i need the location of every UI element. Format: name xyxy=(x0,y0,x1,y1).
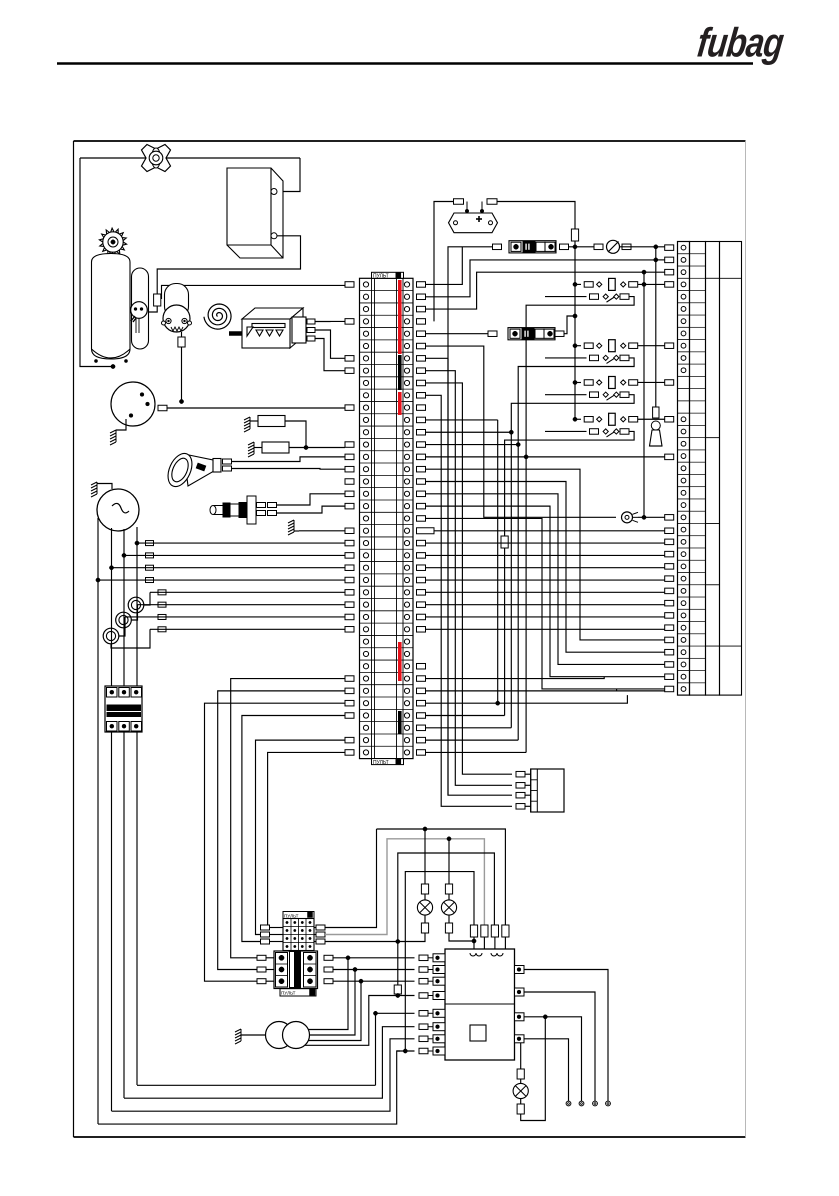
central strip left tabs xyxy=(345,282,354,755)
wire KM1 to AVR pin3 xyxy=(333,980,415,982)
fuse row tab1 xyxy=(493,244,502,250)
wire HL1 a xyxy=(424,894,426,900)
header rule xyxy=(57,62,753,65)
fuel tank xyxy=(92,254,131,360)
wire through row25 xyxy=(426,579,665,581)
wire relay K1 coil feed xyxy=(575,283,581,285)
contactor KM1 body xyxy=(274,951,318,989)
junction row3 bus644 xyxy=(642,270,646,274)
contactor tab left 981.2 xyxy=(257,979,266,984)
wire K5 right stub 927.5 xyxy=(314,927,316,929)
plug tab upper xyxy=(257,503,266,508)
wire L3 bottom xyxy=(112,1039,415,1111)
wire HL2 b xyxy=(448,915,450,923)
relay K4 left contact xyxy=(597,417,602,422)
wire X3 pin 3 xyxy=(525,794,531,796)
wire K5 left 941.5 xyxy=(270,941,284,943)
connector X3 tab 4 xyxy=(516,804,525,810)
wire starter to ignition xyxy=(181,347,183,400)
contactor tab right 957.8 xyxy=(324,955,333,960)
wire step row17 xyxy=(426,482,665,653)
wire X3 pin 1 xyxy=(525,773,531,775)
junction row2 xyxy=(654,258,658,262)
relay K4 tab right xyxy=(629,417,638,423)
inj pin3 xyxy=(307,336,315,341)
wire R1 right xyxy=(285,421,306,448)
ground R2 xyxy=(248,442,254,457)
switch K2 contact xyxy=(603,355,608,360)
wire ignition ground xyxy=(116,419,126,430)
wire lamp HL2 drop xyxy=(448,839,450,884)
wire fuse397 lower xyxy=(397,942,399,986)
wire bundle row34 xyxy=(218,691,345,970)
wire transformer tap4 xyxy=(305,996,393,1046)
wire through row28 xyxy=(426,616,665,618)
switch K1 stub xyxy=(545,296,587,298)
wire horn upper xyxy=(232,457,346,462)
fuse block FU2 xyxy=(508,328,555,340)
wire row13 join xyxy=(426,431,512,433)
relay K4 coil xyxy=(609,413,616,425)
wire inj pin2 to row7 xyxy=(315,330,345,358)
wire plug upper xyxy=(277,494,346,505)
wire bus655 down xyxy=(655,247,657,407)
rectifier tab right xyxy=(487,199,497,205)
switch K3 contact xyxy=(603,392,608,397)
tank terminal dots xyxy=(94,359,97,362)
svg-text:fubag: fubag xyxy=(695,19,787,65)
wire transformer tap1 xyxy=(308,958,348,1030)
relay K5 tab left 927.5 xyxy=(261,925,270,930)
junction R wires xyxy=(304,445,308,449)
junction tr1 xyxy=(346,956,350,960)
inj pin1 xyxy=(307,319,315,324)
wire CT1 to strip xyxy=(150,591,345,593)
relay K1 tab left xyxy=(584,282,593,288)
wire L4 bottom xyxy=(98,1051,400,1124)
terminal lug 3 xyxy=(593,1101,598,1106)
contactor tab left 957.8 xyxy=(257,955,266,960)
oil filter capsule xyxy=(132,268,149,349)
wire to sensor xyxy=(148,306,158,312)
wire fuse397 to row xyxy=(397,994,399,996)
wire key to strip xyxy=(638,516,665,518)
central strip right tabs xyxy=(417,282,426,755)
wire CT1 out xyxy=(144,592,150,605)
junction fuse2 bus xyxy=(573,314,577,318)
relay K5 tab left 934.5 xyxy=(261,932,270,937)
junction fuse row xyxy=(573,245,577,249)
wire transformer tap3 xyxy=(308,981,361,1040)
junction pin5 row xyxy=(373,1011,377,1015)
fuse2 tab right xyxy=(555,331,564,337)
contactor KM1 footer xyxy=(280,989,316,996)
fuse starter xyxy=(178,337,185,347)
lamp HL1 resistor bottom xyxy=(421,923,428,933)
wire gnd R2 xyxy=(254,447,262,449)
current transformer T2 xyxy=(116,612,132,628)
horn tab lower xyxy=(223,466,232,471)
wire rect fuse to bus xyxy=(574,241,576,247)
wire KM1 left 969.5 xyxy=(266,969,274,971)
svg-text:ПУЛЬТ: ПУЛЬТ xyxy=(281,991,296,996)
wire starter down xyxy=(181,332,183,337)
rectifier terminals xyxy=(466,202,468,214)
central strip black bus lower xyxy=(398,711,402,734)
wire lamp HL1 drop xyxy=(424,829,426,884)
terminal lug 1 xyxy=(566,1101,571,1106)
relay K1 tab right xyxy=(629,282,638,288)
wire fuse to breaker xyxy=(569,246,595,248)
AVR fuse pin2 xyxy=(481,925,488,937)
relay K2 left contact xyxy=(597,343,602,348)
plug tab lower xyxy=(257,511,266,516)
junction tr3 xyxy=(359,979,363,983)
junction gen tap 2 xyxy=(122,553,126,557)
wire AVR out3 xyxy=(524,1017,582,1101)
wire row6 to key xyxy=(426,346,617,517)
wire through row27 xyxy=(426,604,665,606)
lamp HL3 resistor bottom xyxy=(517,1104,524,1114)
relay K4 tab left xyxy=(584,417,593,423)
wire row9 riser xyxy=(426,383,513,774)
central strip red bus lower xyxy=(398,642,402,681)
wire HL3 b xyxy=(520,1099,522,1105)
wire row5 to fuse2 xyxy=(426,333,489,335)
relay K3 left contact xyxy=(597,380,602,385)
ignition tab xyxy=(158,405,167,411)
switch K2 tab left xyxy=(590,355,599,361)
wire L2 bottom xyxy=(124,1027,415,1099)
central strip screws xyxy=(363,282,409,755)
tap fuse 2 xyxy=(146,553,154,558)
relay K1 left contact xyxy=(597,282,602,287)
CT common fuse xyxy=(158,627,166,632)
junction relay K4 coil xyxy=(573,417,577,421)
ground generator xyxy=(91,482,97,497)
wire row34-m37 link xyxy=(617,690,665,692)
relay K2 tab right xyxy=(629,343,638,349)
wire relay K2 coil feed xyxy=(575,345,581,347)
relay K3 right contact xyxy=(621,380,626,385)
CT2 fuse xyxy=(158,602,166,607)
connector X3 tab 1 xyxy=(516,771,525,777)
relay K5 tab right 934.5 xyxy=(316,932,325,937)
wire switch K1 return xyxy=(526,297,634,753)
tap fuse 3 xyxy=(146,565,154,570)
buzzer tab xyxy=(653,407,659,418)
wire ignition to strip row11 xyxy=(167,407,345,409)
switch K4 contact xyxy=(603,429,608,434)
wire row10 riser xyxy=(426,395,513,806)
wire row33 ext xyxy=(426,677,605,679)
junction b526 xyxy=(524,455,528,459)
relay K3 tab left xyxy=(584,380,593,386)
wire row21 through xyxy=(434,530,665,532)
wire KM1 left 981.2 xyxy=(266,980,274,982)
wire switch K4 return xyxy=(505,431,634,536)
fuse row tab4 xyxy=(622,244,631,250)
switch K2 tab right xyxy=(620,355,629,361)
wire K5 right stub 934.5 xyxy=(314,934,316,936)
wire row12 join xyxy=(426,419,498,421)
wire K5 left 927.5 xyxy=(270,927,284,929)
wire rectifier right down xyxy=(497,202,575,230)
AVR fuse pin1 xyxy=(470,925,477,937)
wire L1 bottom xyxy=(137,1084,376,1086)
wire fan feed left leg xyxy=(80,158,113,367)
wire fan to battery xyxy=(80,157,300,159)
ignition switch SA1 xyxy=(111,382,155,426)
wire row2 net xyxy=(426,260,656,297)
wire K5 left 934.5 xyxy=(270,934,284,936)
relay K3 tab right xyxy=(629,380,638,386)
switch K1 contact xyxy=(603,294,608,299)
relay K5 tab right 927.5 xyxy=(316,925,325,930)
battery GB1 xyxy=(227,168,283,258)
wire bundle row35 xyxy=(205,703,346,981)
resistor R1 xyxy=(258,416,285,427)
starter solenoid xyxy=(165,284,189,318)
wire CT2 out xyxy=(131,605,137,620)
right strip tab row21net xyxy=(665,528,674,534)
tap fuse 1 xyxy=(146,541,154,546)
central strip black bus upper xyxy=(398,355,402,390)
wire bundle row38 xyxy=(256,740,346,934)
wire CT3 to strip xyxy=(125,616,345,618)
gear engine xyxy=(99,228,126,256)
right strip bus columns xyxy=(690,242,742,696)
junction tank bottom xyxy=(111,364,115,368)
junction lamp1 top xyxy=(423,827,427,831)
wire through row24 xyxy=(426,567,665,569)
breaker QF2 xyxy=(607,240,620,253)
terminal lug 4 xyxy=(606,1101,611,1106)
wire lamp bus 871 xyxy=(405,872,474,1051)
wire gen tap 1 to strip xyxy=(137,542,345,544)
fuse battery return xyxy=(154,294,161,306)
wire lamp bus 853 xyxy=(398,853,495,942)
junction row 995 xyxy=(396,993,400,997)
wire row15 join xyxy=(426,456,665,458)
fuse block FU1 xyxy=(509,241,556,253)
switch K1 tab right xyxy=(620,294,629,300)
wire AVR top pins xyxy=(473,937,475,949)
wire horn lower xyxy=(232,468,346,471)
circuit breaker QF1 xyxy=(105,686,142,732)
generator phase wire L1 xyxy=(97,518,99,1124)
generator G1 xyxy=(97,489,139,531)
wire AVR out2 xyxy=(524,992,595,1101)
wire relay K2 to strip xyxy=(638,345,665,347)
relay K1 right contact xyxy=(621,282,626,287)
central strip big tab row21 xyxy=(417,528,435,534)
junction row35 xyxy=(496,701,500,705)
fuse sense xyxy=(394,985,401,994)
wire K5 row3 to sense bus xyxy=(325,941,398,943)
wire battery top terminal xyxy=(277,158,300,192)
wire coil bus xyxy=(574,247,576,419)
wire ground to strip row21 xyxy=(299,530,345,532)
generator phase wire L2 xyxy=(111,528,113,1111)
wire gen tap 4 to strip xyxy=(98,579,345,581)
junction lamp1 bottom xyxy=(396,939,400,943)
lamp HL1 xyxy=(417,900,432,915)
wire AVR out1 xyxy=(524,970,608,1102)
injection connector xyxy=(292,317,306,343)
transformer T4 xyxy=(266,1022,293,1049)
wire transformer tap2 xyxy=(310,970,356,1036)
wire CT common xyxy=(111,629,150,648)
svg-text:ПУЛЬТ: ПУЛЬТ xyxy=(373,274,389,280)
CT1 fuse xyxy=(158,590,166,595)
resistor R2 xyxy=(262,442,289,453)
wire pin5 riser xyxy=(375,1013,377,1085)
ground ignition xyxy=(110,430,116,445)
wire relay K3 coil feed xyxy=(575,381,581,383)
wire through row22 xyxy=(426,542,665,544)
wire X3 pin 2 xyxy=(525,784,531,786)
relay K2 tab left xyxy=(584,343,593,349)
wire relay K1 to strip xyxy=(638,283,665,285)
contactor tab left 969.5 xyxy=(257,967,266,972)
wire X3 pin 4 xyxy=(525,805,531,807)
rectifier VD1 xyxy=(449,213,498,233)
wire step row16 xyxy=(426,469,665,640)
wire through row29 xyxy=(426,628,665,630)
horn tab upper xyxy=(223,459,232,464)
sensor stem xyxy=(135,318,137,333)
relay K2 right contact xyxy=(621,343,626,348)
wire switch K3 return xyxy=(511,395,634,728)
CT3 fuse xyxy=(158,614,166,619)
junction ignition xyxy=(179,399,183,403)
wire lamp2 bottom xyxy=(449,933,474,941)
wire K5 right stub 941.5 xyxy=(314,941,316,943)
lamp HL3 resistor top xyxy=(517,1069,524,1079)
glow coil spiral xyxy=(204,304,231,329)
central strip header xyxy=(372,272,404,278)
junction relay K3 coil xyxy=(573,380,577,384)
relay K5 tab left 941.5 xyxy=(261,939,270,944)
junction relay K2 coil xyxy=(573,344,577,348)
right strip screws xyxy=(681,245,686,691)
wire step row18 xyxy=(426,494,665,665)
wire CT common to strip xyxy=(150,628,345,630)
wire HL3 a xyxy=(520,1079,522,1084)
relay K4 right contact xyxy=(621,417,626,422)
wire gen tap 2 to strip xyxy=(124,554,345,556)
wire row37 ext xyxy=(426,727,512,729)
wire row8 riser xyxy=(426,371,513,786)
junction tr2 xyxy=(353,967,357,971)
wire lamp bus 829 xyxy=(377,829,506,925)
junction b511 xyxy=(509,430,513,434)
junction out3 xyxy=(543,1015,547,1019)
wire KM1 to AVR pin2 xyxy=(333,969,415,971)
wire switch K2 return xyxy=(518,358,634,740)
spark plug Y1 xyxy=(210,496,256,524)
svg-text:ПУЛЬТ: ПУЛЬТ xyxy=(373,760,389,766)
wire row995 to AVR pin4 xyxy=(393,995,415,997)
central strip red bus mid xyxy=(398,392,402,415)
switch K4 stub xyxy=(545,430,587,432)
current transformer T3 xyxy=(103,628,119,644)
right terminal strip X2 body xyxy=(678,242,690,696)
wire row36 ext xyxy=(426,714,505,716)
wire through row23 xyxy=(426,554,665,556)
junction relay K1 bus644 xyxy=(642,282,646,286)
wire bundle row36 xyxy=(242,715,345,941)
switch K4 tab right xyxy=(620,429,629,435)
gray wire sense xyxy=(325,839,484,935)
wire row14 join xyxy=(426,444,519,446)
relay K3 coil xyxy=(609,376,616,388)
wire KM1 left 957.8 xyxy=(266,957,274,959)
wire breaker to strip xyxy=(620,246,665,248)
wire through row26 xyxy=(426,591,665,593)
switch K1 tab left xyxy=(590,294,599,300)
wire generator ground xyxy=(97,484,112,490)
relay block K5 header xyxy=(283,912,314,919)
relay K1 coil xyxy=(609,278,616,290)
junction b518 xyxy=(516,442,520,446)
central strip footer xyxy=(372,759,404,765)
wire gen tap 3 to strip xyxy=(112,567,346,569)
junction lamp2 bottom xyxy=(472,939,476,943)
connector X3 tab 3 xyxy=(516,792,525,798)
tap fuse 4 xyxy=(146,578,154,583)
AVR right pins xyxy=(515,966,525,1043)
fuse rectifier xyxy=(571,229,578,241)
wire relay K4 coil feed xyxy=(575,418,581,420)
contactor tab right 969.5 xyxy=(324,967,333,972)
wire row7 riser xyxy=(426,357,449,359)
starter motor M2 xyxy=(162,305,192,332)
fuse row tab2 xyxy=(560,244,569,250)
rectifier tab left xyxy=(454,199,464,205)
fan M1 xyxy=(142,145,171,172)
junction bus 655 xyxy=(654,245,658,249)
wire row38 ext xyxy=(426,739,519,741)
ignition contacts xyxy=(140,393,144,397)
injection control unit xyxy=(242,308,303,348)
wire row7 down connector xyxy=(448,358,512,795)
wire bus644 down xyxy=(643,272,645,517)
wire HL3 return xyxy=(521,1017,546,1121)
ground R1 xyxy=(244,417,250,432)
wire rectifier left to row4 xyxy=(434,202,454,322)
wire transformer ground xyxy=(241,1034,266,1036)
wire lamp3 drop xyxy=(520,1043,522,1069)
inj pin2 xyxy=(307,328,315,333)
junction pin8 row xyxy=(403,1049,407,1053)
switch K3 stub xyxy=(545,394,587,396)
fuse bus 504 xyxy=(501,536,508,548)
switch K2 stub xyxy=(545,357,587,359)
wire row3 net xyxy=(426,272,665,309)
AVR unit A1 xyxy=(445,949,515,1060)
wire inj pin3 to row8 xyxy=(315,339,345,371)
wire row34 ext xyxy=(426,689,617,691)
wire bus 504 lower xyxy=(504,548,506,715)
terminal lug 2 xyxy=(579,1101,584,1106)
lamp HL1 resistor top xyxy=(421,884,428,894)
wire bundle row39 xyxy=(261,752,346,927)
AVR left pins xyxy=(419,954,445,1055)
current transformer T1 xyxy=(128,597,144,613)
switch K3 tab left xyxy=(590,392,599,398)
